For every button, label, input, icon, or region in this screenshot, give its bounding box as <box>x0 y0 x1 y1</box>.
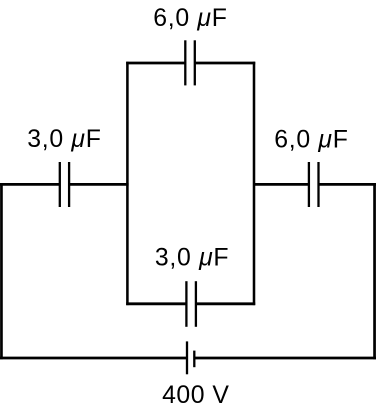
label: capacitor C4 value 6,0 uF (right) <box>274 126 348 153</box>
battery BT1 positive (long) plate <box>186 341 188 374</box>
wire: outer right vertical rail <box>373 183 376 359</box>
capacitor C3 3,0 uF (bottom of middle branch) plates <box>186 281 196 327</box>
svg-text:3,0 μF: 3,0 μF <box>155 245 229 272</box>
svg-text:3,0 μF: 3,0 μF <box>27 126 101 153</box>
capacitor C1 3,0 uF (left) plates <box>60 162 69 207</box>
svg-text:6,0 μF: 6,0 μF <box>274 126 348 153</box>
wire: middle rectangle bottom, left segment <box>126 302 186 305</box>
capacitor C2 6,0 uF (top) plates <box>185 40 195 85</box>
svg-text:400 V: 400 V <box>162 382 229 409</box>
wire: C1 to middle branch left side <box>69 183 129 186</box>
battery BT1 negative (short) plate <box>193 351 195 368</box>
wire: middle rectangle top, right segment <box>195 62 255 65</box>
wire: bottom rail, right of battery <box>194 357 376 360</box>
wire: C4 to outer right rail <box>319 183 376 186</box>
wire: middle branch right side to C4 <box>254 183 309 186</box>
label: capacitor C1 value 3,0 uF (left) <box>27 126 101 153</box>
wire: middle rectangle top, left segment <box>126 62 185 65</box>
label: capacitor C3 value 3,0 uF (bottom middle) <box>155 245 229 272</box>
svg-text:6,0 μF: 6,0 μF <box>153 5 227 32</box>
wire: outer left vertical rail <box>0 183 3 359</box>
wire: outer left horizontal segment (left rail to C1) <box>0 183 60 186</box>
wire: middle rectangle left vertical <box>126 62 129 305</box>
label: battery BT1 value 400 V <box>162 382 229 409</box>
wire: bottom rail, left of battery <box>0 357 187 360</box>
wire: middle rectangle bottom, right segment <box>196 302 255 305</box>
wire: middle rectangle right vertical <box>253 62 256 305</box>
label: capacitor C2 value 6,0 uF (top) <box>153 5 227 32</box>
capacitor C4 6,0 uF (right) plates <box>309 162 319 207</box>
